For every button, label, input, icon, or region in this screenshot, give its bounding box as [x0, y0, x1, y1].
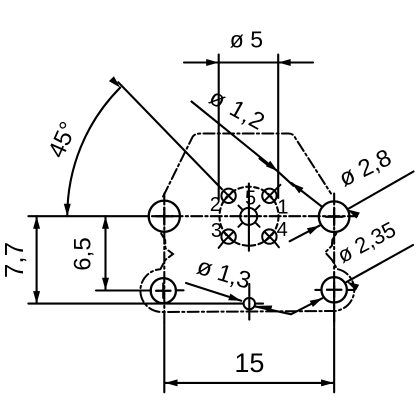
- axis segment between pin 3 and center: [238, 223, 242, 227]
- leader o2,35: [346, 245, 413, 282]
- dimension o5: left extension line: [218, 55, 220, 200]
- top extension line (row1): [28, 215, 149, 217]
- small hole o1.3 at bottom center: [244, 298, 255, 309]
- dimension text 45 deg: [43, 118, 82, 162]
- bent leader between small hole and bottom-right hole: [255, 298, 323, 314]
- axis stub beyond pin 4: [275, 242, 279, 248]
- arrowheads for 45 arc: [64, 204, 71, 217]
- leader from top-right hole pointing up-left: [292, 183, 322, 207]
- arrowheads for 15 dimension: [165, 379, 178, 386]
- svg-text:4: 4: [277, 219, 288, 241]
- arrowheads for o5 dimension: [206, 59, 219, 66]
- body outline: left side notch, bottom edge, right side notch (dash-dot): [140, 234, 354, 313]
- contact pin 2 (o1.2, circle with X): [221, 189, 235, 203]
- svg-text:7,7: 7,7: [0, 242, 29, 278]
- arrowhead pin4 leader: [307, 226, 320, 235]
- axis segment between pin 2 and center: [238, 206, 242, 210]
- pitch circle o5 (dashed): [220, 187, 279, 246]
- contact pin 1 (o1.2, circle with X): [262, 189, 276, 203]
- svg-text:3: 3: [211, 220, 222, 242]
- horizontal centerline through holes and pins (dash-dot): [152, 215, 357, 217]
- dimension text 6,5: [70, 237, 97, 270]
- svg-text:6,5: 6,5: [70, 237, 97, 270]
- arrowheads for 7,7 dimension: [33, 216, 40, 229]
- svg-text:2: 2: [210, 194, 221, 216]
- arrowheads bent leader: [258, 306, 272, 313]
- leader o1,2: [192, 102, 278, 172]
- right hole column centerline (dash-dot): [333, 194, 335, 323]
- 45-degree axis line through pin 2 (reference for 45 dim): [118, 82, 222, 189]
- bottom row centerline dashes near right hole: [315, 289, 321, 291]
- dimension 15: left extension line: [163, 322, 165, 392]
- mounting hole bottom-left (o2.35): [151, 278, 176, 303]
- svg-text:1: 1: [277, 196, 288, 218]
- svg-text:5: 5: [245, 188, 256, 210]
- dimension o5: dimension line: [184, 61, 313, 63]
- leader o2,8: [347, 172, 413, 210]
- body outline: top edge with rounded corners and chamfers (dash-dot): [163, 134, 331, 197]
- leader o1,3: [186, 283, 241, 301]
- pin 5 vertical centerline: [248, 184, 250, 251]
- center pin 5 circle: [240, 208, 257, 225]
- dimension 15: dimension line: [165, 382, 334, 384]
- arrowhead o2,35 leader: [347, 282, 360, 291]
- arrowheads for 6,5 dimension: [102, 216, 109, 229]
- dimension o5: right extension line: [277, 55, 279, 199]
- left hole column centerline (dash-dot): [163, 194, 165, 323]
- 45 degree dimension arc: [67, 88, 120, 217]
- arrowhead leader from top-right hole: [292, 183, 304, 193]
- arrowhead o1,2 leader: [266, 161, 278, 172]
- svg-text:15: 15: [234, 348, 264, 378]
- arrowhead o2,8 leader: [347, 209, 360, 218]
- contact pin 3 (o1.2, circle with X): [221, 229, 235, 243]
- axis stub beyond pin 1: [275, 185, 281, 191]
- dimension line 6,5: [104, 216, 106, 290]
- axis segment between center and pin 4: [256, 223, 260, 227]
- axis segment between center and pin 1: [256, 206, 260, 210]
- bottom extension line for 7,7 (hole row): [28, 303, 243, 305]
- dimension text 7,7: [0, 242, 29, 278]
- mounting hole bottom-right (o2.35): [321, 277, 346, 302]
- dimension line 7,7: [36, 216, 38, 303]
- mounting hole top-right (o2.8): [319, 201, 350, 232]
- leader from pin4 area to top-right hole: [290, 226, 320, 242]
- dimension 15: right extension line: [333, 303, 335, 393]
- axis stub beyond pin 3: [219, 242, 224, 248]
- arrowhead o1,3 leader: [228, 294, 241, 301]
- svg-text:ø 5: ø 5: [230, 27, 263, 53]
- contact pin 4 (o1.2, circle with X): [262, 229, 276, 243]
- bottom row centerline dashes near left hole: [176, 289, 184, 291]
- mounting hole top-left (o2.8): [149, 201, 180, 232]
- extension line for 6,5 (bottom hole row): [96, 289, 151, 291]
